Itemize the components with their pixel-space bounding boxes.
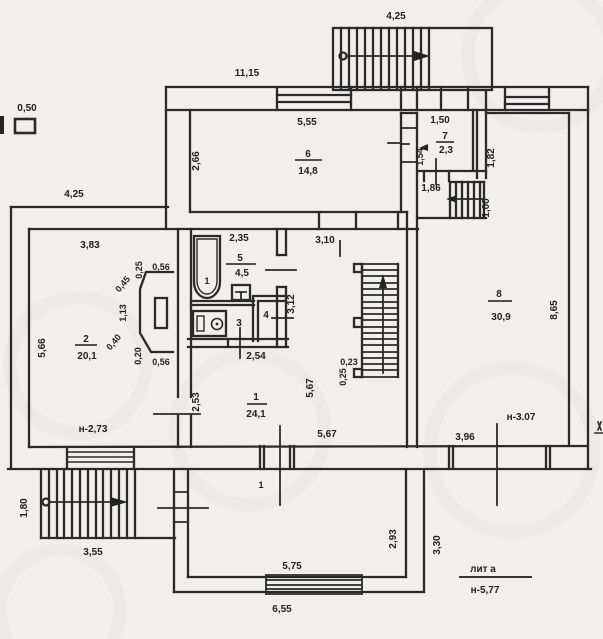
svg-text:2: 2 — [83, 334, 89, 345]
svg-text:3,96: 3,96 — [455, 432, 475, 443]
window room1 dim line — [279, 426, 281, 505]
shaft tick 3 — [401, 161, 417, 163]
svg-text:1: 1 — [204, 276, 209, 286]
top block left wall outer — [165, 87, 167, 229]
stove firebox — [155, 298, 167, 328]
watermark arc 1 — [10, 297, 146, 433]
svg-text:н-5,77: н-5,77 — [471, 585, 500, 596]
svg-text:30,9: 30,9 — [491, 312, 511, 323]
legend rectangle 0,50 — [15, 119, 35, 133]
small stairs top edge — [450, 181, 484, 183]
wall between room 2 and rooms 1/3/5, east line — [190, 229, 192, 447]
bathroom east wall east line — [285, 229, 287, 347]
svg-text:3,30: 3,30 — [432, 535, 443, 555]
shaft tick 1 — [401, 127, 417, 129]
bottom wall inner line — [29, 446, 586, 447]
top block left wall inner — [189, 110, 191, 212]
bottom-left stairs arrow — [43, 499, 50, 506]
room 7 east wall west line — [472, 110, 474, 170]
svg-text:н-2,73: н-2,73 — [79, 424, 108, 435]
cut symbol at left edge — [0, 116, 4, 134]
small stairs arrow — [453, 198, 482, 200]
top wall outer line — [166, 86, 588, 88]
room 8 top inner wall — [486, 112, 569, 114]
svg-text:1,54: 1,54 — [415, 148, 425, 166]
window W2 hatch in top wall — [505, 97, 549, 104]
porch left wall outer — [173, 470, 175, 592]
svg-text:2,66: 2,66 — [191, 151, 202, 171]
svg-text:20,1: 20,1 — [77, 351, 97, 362]
stair hall west wall — [406, 212, 408, 447]
bathroom east wall west line — [276, 229, 278, 347]
svg-text:24,1: 24,1 — [246, 409, 266, 420]
svg-text:лит а: лит а — [470, 564, 496, 575]
svg-text:4,5: 4,5 — [235, 268, 249, 279]
watermark arc 3 — [468, 0, 603, 127]
bottom-left stairs bottom edge — [41, 537, 175, 539]
bottom wall jambs right — [449, 446, 550, 469]
svg-text:3: 3 — [236, 318, 242, 329]
svg-text:4: 4 — [263, 310, 269, 321]
bathroom door tick — [266, 269, 296, 271]
svg-text:1,80: 1,80 — [19, 498, 30, 518]
right wall inner — [568, 113, 570, 446]
top staircase direction arrow — [340, 53, 347, 60]
svg-text:2,54: 2,54 — [246, 351, 266, 362]
porch bottom outer — [174, 591, 424, 593]
room 4 door tick — [272, 317, 293, 319]
svg-text:0,23: 0,23 — [340, 357, 358, 367]
bathtub — [194, 236, 220, 298]
room 6 east wall — [400, 113, 402, 212]
svg-text:1: 1 — [258, 480, 263, 490]
cut label at right edge — [595, 422, 603, 433]
svg-text:2,35: 2,35 — [229, 233, 249, 244]
svg-text:0,56: 0,56 — [152, 357, 170, 367]
svg-text:5,66: 5,66 — [37, 338, 48, 358]
shaft top — [401, 112, 417, 114]
svg-text:6: 6 — [305, 149, 311, 160]
window W1 hatch in top wall — [277, 95, 351, 102]
central staircase right edge — [397, 264, 399, 377]
porch left wall inner — [187, 470, 189, 577]
svg-text:3,10: 3,10 — [315, 235, 335, 246]
svg-text:1,86: 1,86 — [421, 183, 441, 194]
svg-text:3,12: 3,12 — [286, 294, 297, 314]
watermark arc 4 — [0, 550, 120, 639]
svg-text:0,25: 0,25 — [338, 368, 348, 386]
svg-text:1: 1 — [253, 392, 259, 403]
room 7 door jambs — [424, 171, 449, 181]
left block left wall outer — [10, 207, 12, 469]
svg-text:1,13: 1,13 — [118, 304, 128, 322]
central staircase arrow — [382, 285, 384, 373]
water heater square — [232, 285, 250, 300]
partition below bathtub — [191, 301, 254, 305]
left block left wall inner — [28, 229, 30, 447]
right wall outer — [587, 87, 589, 469]
porch left wall ticks — [174, 492, 188, 522]
bottom wall window left jambs — [67, 447, 134, 469]
svg-text:0,56: 0,56 — [152, 262, 170, 272]
svg-text:5,75: 5,75 — [282, 561, 302, 572]
bathroom east wall door jambs — [277, 255, 286, 287]
svg-text:5,67: 5,67 — [305, 378, 316, 398]
bottom wall window left hatch — [67, 452, 134, 462]
svg-text:2,53: 2,53 — [191, 392, 202, 412]
svg-text:0,20: 0,20 — [133, 347, 143, 365]
door tick room2-room1 — [154, 413, 200, 415]
svg-text:4,25: 4,25 — [64, 189, 84, 200]
top wall inner line — [166, 109, 588, 111]
shaft east wall / room 7 west wall — [416, 113, 418, 447]
mid wall lower line between top and bottom blocks — [29, 228, 418, 230]
svg-text:6,55: 6,55 — [272, 604, 292, 615]
room 7 door dim line — [435, 159, 437, 184]
vestibule south wall — [417, 217, 486, 219]
svg-text:3,83: 3,83 — [80, 240, 100, 251]
wall between room 2 and rooms 1/3/5, west line — [177, 229, 179, 447]
mid wall upper line between top and bottom blocks — [190, 211, 407, 213]
svg-text:14,8: 14,8 — [298, 166, 318, 177]
svg-text:5: 5 — [237, 253, 243, 264]
washing machine room 3 — [193, 311, 226, 336]
svg-text:0,25: 0,25 — [134, 261, 144, 279]
room 3 south wall — [188, 339, 288, 347]
svg-text:5,67: 5,67 — [317, 429, 337, 440]
central staircase newel tabs — [354, 264, 362, 377]
dim tick below 3,10 — [339, 241, 341, 256]
watermark arc 2 — [175, 355, 325, 505]
shaft tick 2 — [401, 143, 409, 145]
dim line right of stairs — [158, 507, 208, 509]
svg-text:3,55: 3,55 — [83, 547, 103, 558]
porch bottom inner — [188, 576, 406, 578]
porch right wall inner — [405, 470, 407, 577]
svg-text:н-3.07: н-3.07 — [507, 412, 536, 423]
svg-text:1,50: 1,50 — [430, 115, 450, 126]
bottom-left stairs treads — [41, 470, 135, 538]
svg-text:7: 7 — [442, 131, 448, 142]
svg-text:8: 8 — [496, 289, 502, 300]
svg-text:5,55: 5,55 — [297, 117, 317, 128]
central staircase left rail — [361, 264, 363, 377]
stove outline in room 2 wall — [140, 272, 173, 352]
central staircase treads — [362, 264, 398, 377]
room 7 door swing triangle — [419, 144, 428, 151]
svg-text:1,00: 1,00 — [481, 198, 492, 218]
room 7 south wall — [419, 170, 486, 172]
svg-text:1,82: 1,82 — [486, 148, 497, 168]
tick into room6 — [388, 142, 401, 144]
svg-text:2,93: 2,93 — [388, 529, 399, 549]
svg-text:2,3: 2,3 — [439, 145, 453, 156]
top external staircase outline — [333, 28, 492, 90]
svg-text:8,65: 8,65 — [549, 300, 560, 320]
dim tick 2,54 — [239, 328, 241, 358]
top wall jambs — [277, 87, 549, 110]
small stairs treads — [450, 182, 484, 218]
svg-text:4,25: 4,25 — [386, 11, 406, 22]
bottom wall outer line — [8, 468, 591, 470]
room 4 outline — [253, 296, 286, 341]
porch entrance steps — [266, 575, 362, 594]
porch right wall outer — [423, 470, 425, 592]
top external staircase treads — [341, 28, 429, 90]
watermark arc 5 — [430, 368, 594, 532]
dim line h-3.07 — [496, 424, 498, 505]
bottom wall window room1 jambs — [260, 446, 294, 469]
room 7 east wall east line — [476, 110, 478, 178]
mid wall jambs — [319, 212, 398, 229]
svg-text:0,50: 0,50 — [17, 103, 37, 114]
wall between room7 block and room8 — [485, 90, 487, 178]
left block top wall outer — [11, 206, 168, 208]
svg-text:11,15: 11,15 — [235, 68, 260, 79]
